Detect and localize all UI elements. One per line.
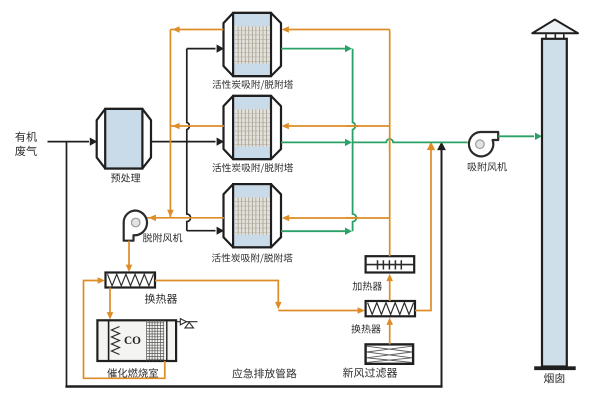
wire: pretreatment to distribution header	[151, 141, 187, 143]
svg-text:CO: CO	[124, 335, 141, 347]
heat exchanger 1 换热器	[106, 273, 156, 288]
wire: emergency bypass right vertical	[441, 147, 443, 387]
wire: tower3 inlet branch	[187, 230, 216, 232]
desorption fan 脱附风机	[124, 211, 147, 241]
burner symbol	[176, 321, 197, 323]
catalytic combustion chamber 催化燃烧室	[97, 320, 176, 361]
wire: HX1 down to combustion chamber	[109, 288, 111, 316]
adsorption fan 吸附风机	[469, 132, 498, 156]
label: emergency pipeline 应急排放管路	[232, 368, 296, 378]
wire: green collect vertical with hops	[353, 49, 357, 232]
wire: black distribution vertical with hops over orange	[187, 49, 191, 231]
pretreatment unit 预处理	[97, 109, 151, 169]
wire: tower3 clean outlet green	[281, 230, 346, 232]
stack 烟囱	[542, 39, 567, 367]
wire: supply branch into tower3	[289, 217, 390, 219]
carbon tower 2 活性炭吸附/脱附塔	[224, 96, 282, 159]
carbon tower 3 活性炭吸附/脱附塔	[224, 184, 282, 247]
wire: orange desorption collect vertical	[169, 30, 171, 218]
wire: tower1 desorption outlet	[170, 29, 223, 31]
wire: fan outlet green to stack	[498, 135, 534, 137]
wire: tower2 inlet branch	[187, 141, 216, 143]
wire: HX1 out to HX2	[155, 281, 278, 305]
wire: tower3 desorption outlet to fan	[147, 217, 224, 219]
stack rain cap	[532, 20, 578, 34]
wire: combustion exhaust loop to HX1	[84, 281, 165, 379]
wire: filter up to HX2	[389, 322, 391, 345]
wire: tower2 desorption outlet	[170, 125, 224, 127]
wire: HX2 out right and up to clean line	[415, 147, 431, 311]
carbon tower 1 活性炭吸附/脱附塔	[224, 13, 282, 76]
wire: emergency bypass left vertical	[66, 142, 68, 388]
wire: tower1 inlet branch	[187, 48, 216, 50]
wire: fan down to heat exchanger 1	[128, 241, 130, 268]
heat exchanger 2 换热器	[366, 301, 415, 316]
fresh air filter 新风过滤器	[366, 344, 414, 363]
wire: raw gas inlet line	[48, 141, 90, 143]
wire: orange overlay at green hops (orange drawn over)	[389, 135, 391, 150]
wire: heater up, desorption supply vertical	[389, 30, 391, 257]
wire: supply branch into tower2	[289, 125, 390, 127]
heater 加热器	[366, 256, 415, 272]
wire: HX2 up to heater	[389, 278, 391, 302]
wire: supply branch into tower1	[289, 29, 390, 31]
node: inlet text 有机废气	[15, 131, 37, 141]
wire: tower1 clean outlet green	[281, 48, 347, 50]
wire: tower2 clean outlet green main line to fan	[281, 141, 347, 143]
wire: emergency bypass bottom line	[65, 385, 442, 387]
